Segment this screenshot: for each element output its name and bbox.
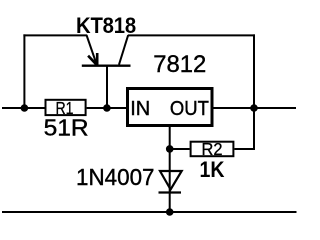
- wire: top rail right segment (from collector): [128, 34, 255, 36]
- svg-text:1N4007: 1N4007: [76, 164, 155, 190]
- svg-text:7812: 7812: [153, 51, 206, 78]
- resistor R2: [191, 139, 234, 159]
- svg-text:51R: 51R: [44, 115, 89, 141]
- wire: bottom ground rail: [2, 211, 297, 213]
- wire: right vertical riser: [253, 34, 255, 108]
- wire: input rail between R1 and 7812: [87, 107, 126, 109]
- wire: R2 left lead from ground pin node: [170, 148, 190, 150]
- wire: left vertical riser: [23, 34, 25, 108]
- svg-text:R2: R2: [202, 139, 223, 159]
- node: base lead junction: [103, 104, 111, 112]
- diode VD1 1N4007: [159, 171, 182, 193]
- svg-text:KT818: KT818: [76, 13, 136, 38]
- node: output/right riser junction: [250, 104, 258, 112]
- wire: R2 right lead and riser up to output rail: [234, 108, 254, 149]
- resistor R1: [46, 98, 86, 118]
- node: diode to bottom rail junction: [166, 208, 174, 216]
- wire: top rail left segment (to emitter): [23, 34, 87, 36]
- svg-text:IN: IN: [130, 98, 150, 120]
- wire: 7812 ground pin vertical through diode to bottom rail: [169, 127, 171, 212]
- wire: output rail from 7812 to right edge: [213, 107, 296, 109]
- node: ground pin / R2 junction: [166, 145, 174, 153]
- node: input/left riser junction: [21, 104, 29, 112]
- svg-text:OUT: OUT: [170, 98, 209, 120]
- transistor Q1 KT818 (PNP, base bar with emitter arrow): [82, 35, 131, 66]
- wire: transistor base lead down to input rail: [106, 66, 108, 108]
- svg-text:1K: 1K: [200, 157, 225, 182]
- regulator U1 7812 box: [128, 89, 213, 126]
- wire: main input rail left segment: [2, 107, 45, 109]
